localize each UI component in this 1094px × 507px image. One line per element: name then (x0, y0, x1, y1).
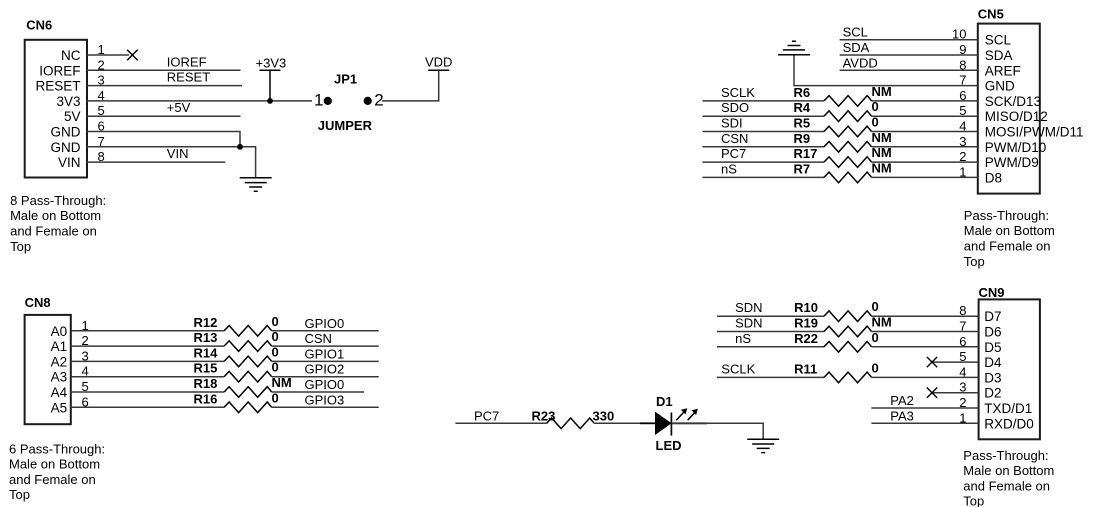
svg-text:SCL: SCL (843, 25, 868, 40)
svg-text:D5: D5 (984, 340, 1001, 355)
svg-text:Male on Bottom: Male on Bottom (10, 208, 101, 223)
connector CN6 (25, 40, 87, 178)
svg-text:Male on Bottom: Male on Bottom (964, 223, 1055, 238)
LED D1 emission arrows (676, 411, 696, 420)
resistor R5 (824, 126, 872, 137)
svg-text:LED: LED (656, 438, 682, 453)
svg-text:Top: Top (10, 239, 31, 254)
svg-text:GND: GND (51, 125, 81, 140)
svg-text:5V: 5V (64, 109, 81, 124)
svg-text:D8: D8 (985, 170, 1002, 185)
svg-text:A4: A4 (51, 385, 68, 400)
wire net SCLK to resistor R11 (717, 376, 824, 378)
svg-text:R9: R9 (794, 131, 811, 146)
svg-text:SDI: SDI (721, 116, 743, 131)
svg-text:A5: A5 (51, 400, 68, 415)
wire CN8 pin5 to resistor R18 (71, 391, 224, 393)
svg-text:IOREF: IOREF (39, 63, 80, 78)
svg-text:0: 0 (872, 299, 879, 314)
svg-text:NM: NM (872, 315, 892, 330)
wire net GPIO1 (272, 360, 379, 362)
svg-text:CN9: CN9 (979, 285, 1005, 300)
svg-text:R17: R17 (794, 146, 818, 161)
wire R10 to CN9 pin8 (872, 315, 979, 317)
resistor R12 (224, 326, 272, 337)
wire R7 to CN5 pin1 (872, 176, 978, 178)
svg-text:R16: R16 (194, 391, 218, 406)
svg-text:SDA: SDA (985, 48, 1013, 63)
ground symbol (CN5, inverted) (778, 41, 810, 54)
svg-text:GPIO0: GPIO0 (305, 377, 345, 392)
svg-text:RXD/D0: RXD/D0 (984, 416, 1034, 431)
svg-text:NM: NM (272, 375, 292, 390)
svg-text:and Female on: and Female on (10, 224, 97, 239)
svg-text:nS: nS (735, 331, 751, 346)
svg-text:2: 2 (374, 90, 383, 109)
svg-text:CSN: CSN (721, 131, 748, 146)
svg-text:R22: R22 (794, 331, 818, 346)
wire R4 to CN5 pin5 (872, 115, 978, 117)
svg-text:VIN: VIN (167, 146, 189, 161)
wire net PC7 to resistor R17 (703, 161, 825, 163)
svg-text:D3: D3 (984, 370, 1001, 385)
svg-text:SDA: SDA (843, 40, 870, 55)
wire R19 to CN9 pin7 (872, 331, 979, 333)
wire CN5 pin7 to ground (794, 55, 978, 86)
svg-text:PA2: PA2 (890, 393, 914, 408)
svg-text:D7: D7 (984, 309, 1001, 324)
svg-text:RESET: RESET (35, 79, 80, 94)
resistor R22 (824, 342, 872, 353)
junction node +3V3 (267, 98, 273, 104)
resistor R18 (224, 387, 272, 398)
svg-text:GPIO3: GPIO3 (305, 392, 345, 407)
svg-text:D1: D1 (656, 394, 673, 409)
svg-text:NM: NM (872, 145, 892, 160)
svg-text:R12: R12 (194, 315, 218, 330)
resistor R17 (824, 157, 872, 168)
svg-text:R6: R6 (794, 85, 811, 100)
svg-text:R18: R18 (194, 376, 218, 391)
wire R5 to CN5 pin4 (872, 131, 978, 133)
svg-text:0: 0 (872, 99, 879, 114)
svg-text:0: 0 (872, 330, 879, 345)
svg-text:VIN: VIN (58, 155, 81, 170)
svg-text:A2: A2 (51, 354, 68, 369)
svg-text:GND: GND (985, 79, 1015, 94)
wire net 3V3 (CN6 pin4 to JP1 pin1) (87, 100, 312, 102)
svg-text:and Female on: and Female on (963, 478, 1050, 493)
wire net CSN (272, 345, 379, 347)
wire net SDN to resistor R10 (717, 315, 824, 317)
resistor R23 (547, 418, 595, 429)
svg-text:Pass-Through:: Pass-Through: (964, 208, 1049, 223)
svg-text:D4: D4 (984, 355, 1002, 370)
wire net GPIO0 (272, 391, 364, 393)
wire net SDO to resistor R4 (703, 115, 825, 117)
wire net CSN to resistor R9 (703, 146, 825, 148)
svg-text:D6: D6 (984, 325, 1001, 340)
resistor R13 (224, 341, 272, 352)
svg-text:Top: Top (963, 494, 984, 507)
svg-text:0: 0 (272, 390, 279, 405)
connector CN8 (25, 315, 71, 424)
svg-text:A1: A1 (51, 339, 68, 354)
wire CN9 pin3 stub (932, 392, 979, 394)
no-connect X on CN9 pin3 (927, 388, 937, 398)
svg-text:PWM/D9: PWM/D9 (985, 155, 1039, 170)
svg-text:Male on Bottom: Male on Bottom (9, 457, 100, 472)
svg-text:NM: NM (872, 84, 892, 99)
svg-text:TXD/D1: TXD/D1 (984, 401, 1032, 416)
resistor R7 (824, 172, 872, 183)
svg-text:VDD: VDD (425, 55, 452, 70)
svg-text:SCLK: SCLK (721, 361, 755, 376)
resistor R15 (224, 371, 272, 382)
svg-text:0: 0 (872, 360, 879, 375)
wire R6 to CN5 pin6 (872, 100, 978, 102)
svg-text:Male on Bottom: Male on Bottom (963, 463, 1054, 478)
resistor R6 (824, 96, 872, 107)
svg-text:R7: R7 (794, 161, 811, 176)
svg-text:SDN: SDN (735, 316, 762, 331)
wire net GPIO0 (272, 330, 379, 332)
svg-text:MOSI/PWM/D11: MOSI/PWM/D11 (985, 125, 1084, 140)
svg-text:Top: Top (9, 487, 30, 502)
wire net SDI to resistor R5 (703, 131, 825, 133)
svg-text:R4: R4 (794, 100, 811, 115)
svg-text:RESET: RESET (167, 70, 210, 85)
svg-text:Top: Top (964, 254, 985, 269)
svg-text:AREF: AREF (985, 63, 1021, 78)
svg-text:AVDD: AVDD (843, 55, 878, 70)
wire LED cathode to ground (671, 423, 763, 439)
no-connect X on CN6 pin1 (127, 50, 137, 60)
junction node GND (237, 144, 243, 150)
svg-text:0: 0 (272, 360, 279, 375)
wire net SDN to resistor R19 (717, 331, 824, 333)
svg-text:GPIO1: GPIO1 (305, 346, 345, 361)
wire CN8 pin3 to resistor R14 (71, 360, 224, 362)
svg-text:SCL: SCL (985, 33, 1012, 48)
svg-text:0: 0 (272, 329, 279, 344)
wire JP1 pin2 to VDD (382, 70, 439, 101)
wire net SDA (CN5 pin9) (840, 54, 978, 56)
connector CN5 (978, 24, 1040, 194)
svg-text:CN5: CN5 (978, 7, 1004, 22)
svg-text:SCLK: SCLK (721, 85, 755, 100)
svg-text:GPIO2: GPIO2 (305, 362, 345, 377)
resistor R9 (824, 142, 872, 153)
resistor R11 (824, 372, 872, 383)
svg-text:MISO/D12: MISO/D12 (985, 109, 1048, 124)
svg-text:R5: R5 (794, 116, 811, 131)
svg-text:6 Pass-Through:: 6 Pass-Through: (9, 441, 105, 456)
svg-text:NC: NC (61, 48, 81, 63)
wire CN6 pin1 stub (87, 54, 129, 56)
svg-text:A0: A0 (51, 324, 68, 339)
svg-text:+3V3: +3V3 (256, 55, 287, 70)
wire CN9 pin5 stub (932, 361, 979, 363)
svg-text:3V3: 3V3 (56, 94, 80, 109)
connector CN9 (979, 299, 1040, 439)
power symbol VDD (428, 69, 449, 71)
wire R23 to LED D1 (594, 422, 642, 424)
svg-text:1: 1 (314, 90, 323, 109)
svg-text:0: 0 (272, 344, 279, 359)
wire CN8 pin4 to resistor R15 (71, 376, 224, 378)
ground symbol (LED) (747, 439, 779, 452)
wire net AVDD (CN5 pin8) (840, 69, 978, 71)
resistor R4 (824, 111, 872, 122)
wire net SCL (CN5 pin10) (840, 39, 978, 41)
wire net IOREF (CN6 pin2) (87, 69, 241, 71)
wire R11 to CN9 pin4 (872, 376, 979, 378)
wire net PA3 (CN9 pin1) (871, 422, 978, 424)
svg-text:SDO: SDO (721, 100, 749, 115)
svg-text:PC7: PC7 (474, 408, 499, 423)
wire net PC7 to resistor R23 (455, 422, 546, 424)
svg-text:JUMPER: JUMPER (318, 118, 373, 133)
power symbol +3V3 (260, 70, 281, 101)
svg-text:D2: D2 (984, 386, 1001, 401)
svg-text:R14: R14 (194, 345, 219, 360)
wire net GPIO2 (272, 376, 379, 378)
svg-text:R23: R23 (532, 408, 556, 423)
LED D1 (656, 413, 671, 434)
svg-text:SCK/D13: SCK/D13 (985, 94, 1041, 109)
svg-text:R13: R13 (194, 330, 218, 345)
svg-text:NM: NM (872, 130, 892, 145)
svg-text:330: 330 (593, 408, 615, 423)
resistor R16 (224, 402, 272, 413)
wire CN8 pin1 to resistor R12 (71, 330, 224, 332)
wire net RESET (CN6 pin3) (87, 85, 242, 87)
wire R9 to CN5 pin3 (872, 146, 978, 148)
wire net VIN (CN6 pin8) (87, 161, 225, 163)
svg-text:PC7: PC7 (721, 146, 746, 161)
svg-text:GPIO0: GPIO0 (305, 316, 345, 331)
wire net nS to resistor R22 (717, 346, 824, 348)
svg-text:A3: A3 (51, 370, 68, 385)
wire net SCLK to resistor R6 (703, 100, 825, 102)
svg-text:R10: R10 (794, 300, 818, 315)
wire net GPIO3 (272, 406, 379, 408)
wire CN8 pin2 to resistor R13 (71, 345, 224, 347)
ground symbol (CN6) (240, 178, 272, 191)
resistor R14 (224, 356, 272, 367)
JP1 pin 2 (364, 97, 372, 105)
svg-text:JP1: JP1 (334, 72, 357, 87)
svg-text:+5V: +5V (167, 100, 191, 115)
wire CN8 pin6 to resistor R16 (71, 406, 224, 408)
svg-text:0: 0 (872, 115, 879, 130)
svg-text:CN8: CN8 (25, 295, 51, 310)
svg-text:CSN: CSN (305, 331, 332, 346)
svg-text:and Female on: and Female on (9, 472, 96, 487)
wire net +5V (CN6 pin5) (87, 115, 241, 117)
svg-text:PA3: PA3 (890, 408, 914, 423)
svg-text:R19: R19 (794, 316, 818, 331)
svg-text:R11: R11 (794, 361, 817, 376)
svg-text:CN6: CN6 (26, 18, 52, 33)
wire CN6 pin6 to GND corner (87, 132, 240, 147)
resistor R19 (824, 326, 872, 337)
svg-text:nS: nS (721, 161, 737, 176)
svg-text:Pass-Through:: Pass-Through: (963, 448, 1048, 463)
svg-text:R15: R15 (194, 361, 218, 376)
wire R17 to CN5 pin2 (872, 161, 978, 163)
svg-text:NM: NM (872, 160, 892, 175)
svg-text:IOREF: IOREF (167, 54, 207, 69)
wire net PA2 (CN9 pin2) (871, 407, 978, 409)
wire CN6 pin7 to ground (87, 147, 256, 178)
svg-text:0: 0 (272, 314, 279, 329)
wire R22 to CN9 pin6 (872, 346, 979, 348)
svg-text:8 Pass-Through:: 8 Pass-Through: (10, 193, 106, 208)
svg-text:GND: GND (51, 140, 81, 155)
resistor R10 (824, 311, 872, 322)
svg-text:SDN: SDN (735, 300, 762, 315)
svg-text:PWM/D10: PWM/D10 (985, 140, 1047, 155)
svg-text:and Female on: and Female on (964, 239, 1051, 254)
wire net nS to resistor R7 (703, 176, 825, 178)
no-connect X on CN9 pin5 (927, 357, 937, 367)
